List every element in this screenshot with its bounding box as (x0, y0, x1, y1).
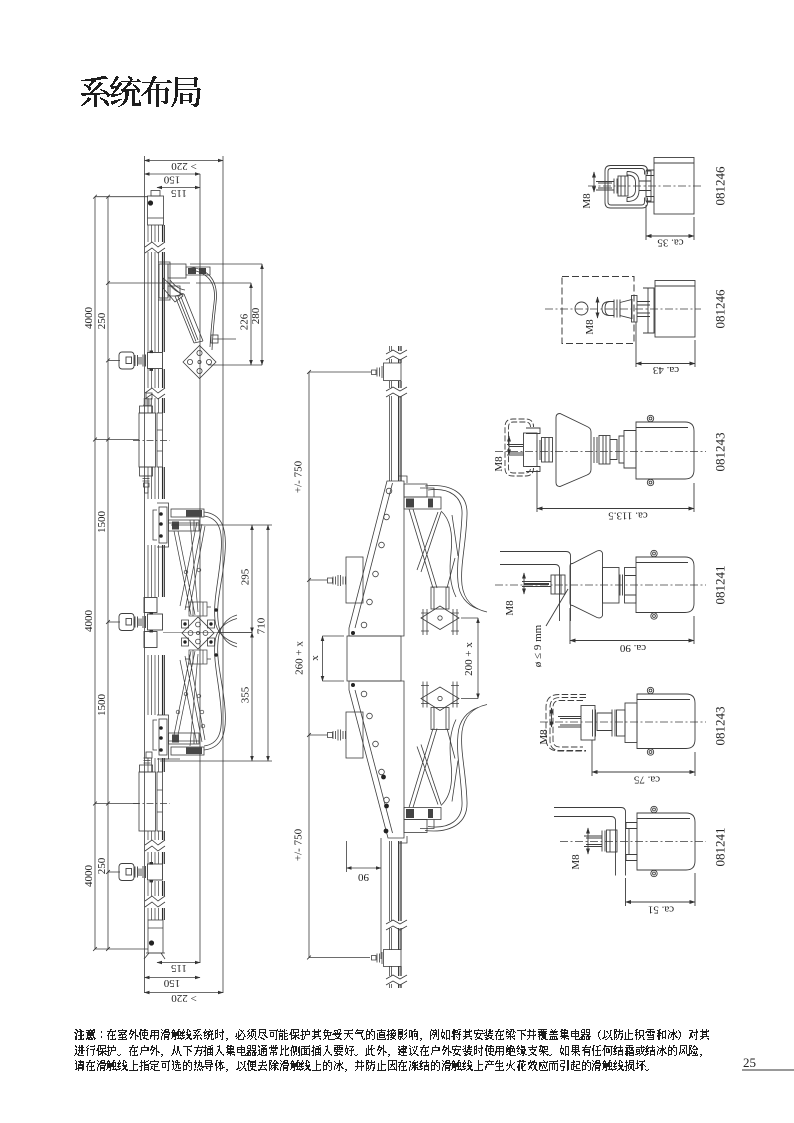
svg-text:+/- 750: +/- 750 (293, 460, 305, 493)
F5 ca.75 dim (592, 740, 695, 776)
F3 M8 dim (508, 436, 510, 455)
svg-text:+/- 750: +/- 750 (293, 828, 305, 861)
svg-text:081241: 081241 (713, 828, 728, 867)
svg-text:115: 115 (170, 962, 187, 974)
F4 stem (603, 568, 620, 604)
F2 ca.43 dim (636, 322, 695, 367)
bottom dim >220 (145, 992, 224, 994)
C2 dim 355 (251, 633, 253, 762)
F4 M8 dim (523, 573, 525, 594)
F4 ca.90 dim (570, 608, 694, 644)
svg-text:150: 150 (163, 977, 180, 989)
F3 bolt (507, 445, 524, 456)
rail break marks (145, 242, 165, 907)
M collector top: head, arm, linkage, trolley, cables (404, 484, 441, 509)
F1 axis (588, 185, 701, 187)
tick: hanger H2 centre (108, 621, 120, 623)
F6 ca.51 dim (626, 873, 696, 906)
svg-text:081246: 081246 (713, 166, 728, 206)
tick: rail top reference (95, 196, 148, 198)
svg-text:1500: 1500 (96, 511, 108, 534)
svg-text:4000: 4000 (83, 865, 95, 888)
dimension line L2 (250/1500 spans) (107, 197, 109, 949)
C2 scissor arms upper (174, 520, 205, 615)
F3 mounting plate (524, 433, 538, 467)
F6 body (637, 813, 695, 870)
bottom dim 150 (145, 977, 201, 979)
F3 washers and nut (537, 440, 540, 460)
svg-text:081243: 081243 (713, 433, 728, 472)
F3 ca.113.5 dim (537, 470, 694, 512)
H2 clamp claws (144, 598, 157, 613)
svg-text:115: 115 (170, 187, 187, 199)
M dim 90 (347, 867, 382, 869)
F3 axis (495, 451, 706, 453)
F5 washers nut stack (593, 710, 596, 737)
tick: rail bottom end (95, 948, 148, 950)
svg-text:280: 280 (250, 307, 262, 324)
svg-text:250: 250 (96, 312, 108, 329)
F1 C-bracket (605, 166, 648, 209)
F1 body (654, 158, 694, 215)
svg-text:081246: 081246 (713, 289, 728, 329)
C1 arm (double line) (175, 294, 203, 343)
F4 bolt (522, 582, 551, 587)
F2 M8 dim (597, 297, 599, 318)
C2 top piston (169, 520, 200, 531)
C1 head spring detail (168, 280, 185, 294)
M top plate side block (346, 557, 363, 603)
M top block bolt (333, 575, 346, 586)
F1 right plate (646, 171, 651, 201)
M dim line A x=309 (308, 372, 310, 958)
F1 M8 dim (593, 172, 595, 192)
svg-text:ca. 43: ca. 43 (652, 364, 679, 376)
C1 mounting diamond plate (183, 346, 216, 379)
M rail verticals (390, 346, 392, 481)
svg-text:200 + x: 200 + x (463, 642, 475, 676)
F2 washers (614, 300, 620, 318)
F2 axis (545, 308, 701, 310)
tick: hanger H3 centre (108, 871, 120, 873)
F1 bolt (596, 182, 614, 191)
F5 M8 dim (551, 708, 553, 727)
C2 bottom bracket (157, 715, 169, 759)
rail bottom end cap (144, 920, 165, 959)
M trolley upper (431, 587, 449, 609)
note text line 1 (traced) (74, 1029, 709, 1041)
page number underline (742, 1069, 794, 1071)
F3 cone washers / hex nut (594, 437, 597, 463)
svg-text:M8: M8 (584, 319, 596, 335)
M bottom plate bolt holes (361, 691, 367, 697)
svg-text:M8: M8 (570, 854, 582, 870)
svg-text:25: 25 (743, 1055, 756, 1070)
F1 ca.35 dim (646, 205, 694, 240)
svg-text:226: 226 (239, 313, 251, 330)
svg-text:ca. 90: ca. 90 (619, 642, 646, 654)
dimension line L1 (4000 spans) (94, 197, 96, 949)
C2 dim 295 (251, 525, 253, 633)
top dim >220 (145, 160, 224, 162)
M rail break marks (386, 350, 407, 360)
F6 axis (560, 841, 706, 843)
svg-text:ca. 75: ca. 75 (633, 774, 660, 786)
svg-text:ca. 35: ca. 35 (657, 237, 684, 249)
C2 dim extension lines (160, 525, 272, 761)
F3 body bosses (647, 415, 653, 421)
svg-text:4000: 4000 (83, 610, 95, 633)
F5 bolt (558, 717, 581, 728)
svg-text:M8: M8 (504, 600, 516, 616)
F2 beam hole (575, 302, 588, 315)
C1 thread block fills (188, 268, 196, 274)
C1 dim line 280 (261, 264, 263, 365)
M x-bracket (322, 636, 324, 681)
svg-text:ca. 51: ca. 51 (648, 904, 674, 916)
F3 insulator cone (556, 414, 591, 487)
C1 cable clamp bolt (213, 338, 236, 340)
C1 cable curve (190, 267, 216, 350)
M hanger bottom (384, 950, 402, 967)
extension line E1 x=144.5 (144, 156, 146, 993)
M linkage upper (409, 509, 458, 588)
svg-text:295: 295 (240, 568, 252, 585)
F2 beam section (dashed) (562, 277, 634, 344)
C2 dim 710 (267, 525, 269, 761)
svg-text:081243: 081243 (713, 707, 728, 746)
F6 bolt (584, 836, 602, 847)
F2 cone nut (620, 300, 632, 319)
F5 mounting plate (581, 706, 595, 741)
F4 rings (620, 575, 623, 596)
F4 body bosses (651, 550, 657, 556)
F3 adapter (619, 431, 636, 469)
C2 trolley tower lower (189, 650, 207, 664)
M dim 200+x (477, 618, 479, 699)
svg-text:M8: M8 (538, 729, 550, 745)
svg-text:1500: 1500 (96, 694, 108, 717)
F3 C-bracket (dashed) (505, 419, 534, 476)
F4 leader for hole note (546, 589, 568, 626)
tick: collector1 contact plane (108, 282, 190, 284)
extension line E2 x=200 (199, 174, 201, 963)
svg-text:> 220: > 220 (171, 992, 197, 1004)
F3 body (636, 422, 694, 479)
conductor rail (left drawing) 5 profile lines (148, 225, 159, 920)
svg-text:90: 90 (358, 871, 370, 883)
bottom end black dot (149, 940, 154, 945)
C2 trolley tower upper (189, 602, 207, 616)
M top plate bolt holes (386, 488, 392, 494)
C2 diamond plate (182, 617, 214, 649)
F5 body bosses (647, 687, 653, 693)
M dimension lines (309, 372, 478, 959)
F5 body (637, 694, 695, 749)
tick: hanger H1 centre (108, 359, 120, 361)
F4 axis (495, 584, 706, 586)
F6 angle bracket (554, 808, 626, 876)
tick: feed connector X1 centre (95, 439, 139, 441)
C1 arm inner (178, 297, 198, 342)
svg-text:081241: 081241 (713, 566, 728, 605)
F2 plate and tabs (632, 296, 638, 323)
C2 trolley side bolts (182, 620, 215, 646)
note text line 3 (traced) (75, 1060, 649, 1072)
rail top end cap (148, 191, 164, 226)
M top mounting plate (trapezoid) (349, 481, 404, 636)
svg-text:250: 250 (96, 857, 108, 874)
C2 top bracket plate on rail (157, 503, 169, 547)
C1 head bracket on rail (158, 262, 170, 300)
C2 top arm bar (171, 509, 204, 517)
M collector bottom (mirror) (404, 808, 441, 833)
svg-text:ø ≤ 9 mm: ø ≤ 9 mm (532, 624, 544, 667)
C1 dim extension lines (190, 264, 262, 365)
svg-text:355: 355 (240, 686, 252, 703)
extension line E3 x=223 (222, 156, 224, 993)
M cable upper inner (441, 511, 456, 597)
M bottom mounting plate (349, 681, 404, 838)
F4 nut (551, 575, 565, 594)
F2 bolt dome head (602, 302, 614, 316)
M beam cross rect (260+x zone) (347, 636, 401, 681)
C2 cable lower (204, 615, 237, 750)
F6 body bosses (651, 806, 657, 812)
M plate black dots (384, 829, 389, 834)
F6 washers nut (602, 831, 605, 852)
M bottom block bolt (333, 730, 346, 741)
svg-text:4000: 4000 (83, 307, 95, 330)
M cables upper (425, 486, 487, 612)
C1 dim line 226 (250, 283, 252, 365)
svg-text:M8: M8 (493, 456, 505, 472)
C2 centre line through diamond (163, 632, 252, 634)
M bottom plate side block (346, 712, 363, 758)
svg-text:> 220: > 220 (171, 160, 197, 172)
svg-text:M8: M8 (581, 193, 593, 209)
svg-text:x: x (309, 655, 321, 661)
tick: connector X2 centre (95, 803, 139, 805)
F5 axis (540, 721, 706, 723)
top dim 115 (157, 187, 200, 189)
M ticks on A (309, 371, 371, 373)
F5 stem (625, 703, 637, 743)
F5 C-bracket (550, 698, 586, 751)
F4 angle bracket (500, 552, 571, 622)
top dim 150 (145, 173, 201, 175)
C1 bolt bar with thread blocks (186, 267, 210, 275)
F4 nut block (625, 568, 637, 604)
note text line 2 (traced) (74, 1045, 702, 1057)
C2 scissor arms lower (174, 651, 205, 746)
svg-text:150: 150 (163, 174, 180, 186)
F6 connection tabs (626, 823, 637, 861)
F2 body (655, 281, 695, 338)
F4 insulator cone (570, 551, 603, 618)
M hanger top (384, 363, 402, 381)
top end black dot (148, 200, 153, 205)
svg-text:ca. 113.5: ca. 113.5 (608, 510, 648, 522)
page title 系统布局 (traced glyphs) (81, 76, 201, 107)
svg-text:260 + x: 260 + x (294, 641, 306, 675)
bottom dim 115 (157, 962, 200, 964)
F4 body (636, 557, 694, 613)
svg-text:710: 710 (256, 617, 268, 634)
F1 inner claw (627, 172, 639, 202)
F6 M8 dim (587, 828, 589, 854)
C2 cable upper (204, 512, 237, 647)
